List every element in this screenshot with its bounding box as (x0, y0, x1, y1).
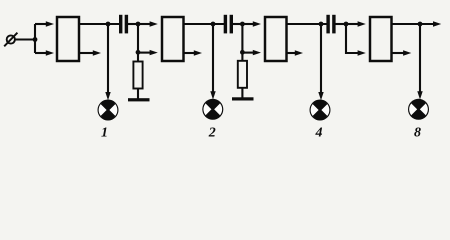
arrow into U1 top input (35, 21, 54, 26)
wire node J down to lamp HL4 (417, 24, 422, 100)
svg-text:8: 8 (414, 126, 421, 141)
svg-text:1: 1 (101, 126, 108, 141)
arrow U2 bottom output (184, 50, 202, 55)
lamp HL4 (408, 99, 429, 120)
wire node B down to lamp HL1 (105, 24, 110, 100)
wire node H down to lamp HL3 (318, 24, 323, 100)
wire input to node A (15, 38, 35, 40)
wire U1 top output (79, 23, 120, 25)
capacitor C2 (224, 15, 233, 34)
svg-text:2: 2 (208, 126, 216, 141)
resistor R2 (238, 52, 247, 99)
node B junction (106, 22, 111, 27)
wire node F down (241, 24, 243, 54)
label 1 (101, 126, 108, 141)
node A junction (33, 37, 38, 42)
label 8 (414, 126, 421, 141)
wire C1 to node C (128, 23, 138, 25)
wire U3 top output (287, 23, 328, 25)
wire U4 top output with final arrow (392, 21, 442, 26)
ground for R2 (232, 97, 254, 100)
node E junction (211, 22, 216, 27)
lamp HL1 (98, 100, 119, 121)
wire C2 to node F (233, 23, 242, 25)
divider block U2 (162, 17, 184, 61)
node H junction (319, 22, 324, 27)
wire C3 to node I (336, 23, 347, 25)
label 4 (315, 126, 323, 141)
wire node I down and into U4 bottom input (346, 24, 366, 56)
divider block U4 (370, 17, 392, 61)
node J junction (418, 22, 423, 27)
wire node A vertical (34, 24, 36, 53)
lamp HL2 (202, 99, 223, 120)
node F junction (240, 22, 245, 27)
node I junction (344, 22, 349, 27)
node D junction (136, 50, 141, 55)
capacitor C3 (326, 15, 335, 34)
label 2 (208, 126, 216, 141)
capacitor C1 (119, 15, 128, 34)
arrow U4 bottom output (392, 50, 411, 55)
wire U2 top output (184, 23, 225, 25)
generator input symbol (4, 33, 17, 47)
arrow into U3 top input (242, 21, 261, 26)
node C junction (136, 22, 141, 27)
arrow U3 bottom output (287, 50, 303, 55)
ground for R1 (128, 98, 150, 101)
node G junction (240, 50, 245, 55)
lamp HL3 (310, 100, 331, 121)
wire node C down (137, 24, 139, 54)
wire node E down to lamp HL2 (210, 24, 215, 100)
svg-text:4: 4 (315, 126, 323, 141)
arrow into U2 bottom input (138, 50, 158, 55)
divider block U1 (57, 17, 79, 61)
arrow into U3 bottom input (242, 50, 261, 55)
resistor R1 (133, 53, 142, 100)
arrow into U2 top input (138, 21, 158, 26)
arrow into U4 top input (346, 21, 366, 26)
arrow into U1 bottom input (35, 50, 54, 55)
arrow U1 bottom output (80, 50, 101, 55)
divider block U3 (265, 17, 287, 61)
